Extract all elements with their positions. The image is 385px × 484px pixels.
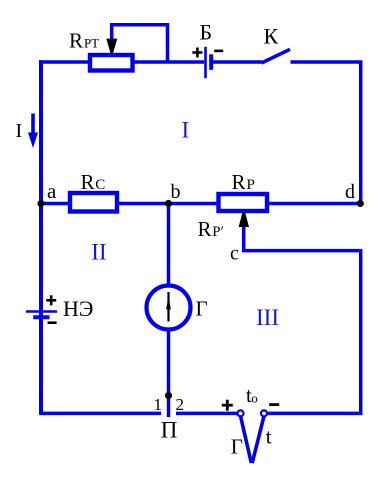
svg-text:П: П: [161, 417, 178, 442]
svg-text:Р: Р: [247, 177, 255, 193]
svg-text:К: К: [264, 24, 279, 49]
svg-text:НЭ: НЭ: [63, 296, 93, 321]
svg-text:Г: Г: [196, 296, 208, 320]
svg-text:R: R: [198, 217, 212, 241]
svg-text:I: I: [182, 117, 190, 142]
svg-text:R: R: [81, 170, 95, 194]
svg-text:2: 2: [176, 395, 185, 414]
svg-text:о: о: [251, 390, 257, 405]
svg-text:1: 1: [154, 395, 163, 414]
svg-text:Б: Б: [200, 19, 213, 44]
svg-text:РТ: РТ: [84, 36, 99, 51]
svg-text:II: II: [91, 240, 106, 265]
svg-text:Г: Г: [231, 434, 243, 458]
svg-text:R: R: [69, 29, 83, 53]
svg-text:a: a: [47, 179, 57, 203]
svg-text:III: III: [256, 305, 279, 330]
svg-text:R: R: [232, 170, 246, 194]
svg-text:Р′: Р′: [212, 224, 224, 240]
svg-text:I: I: [16, 120, 23, 142]
svg-text:С: С: [95, 177, 105, 193]
svg-text:b: b: [171, 181, 181, 203]
svg-text:t: t: [266, 425, 272, 449]
svg-text:c: c: [230, 243, 239, 265]
svg-text:d: d: [345, 181, 355, 203]
